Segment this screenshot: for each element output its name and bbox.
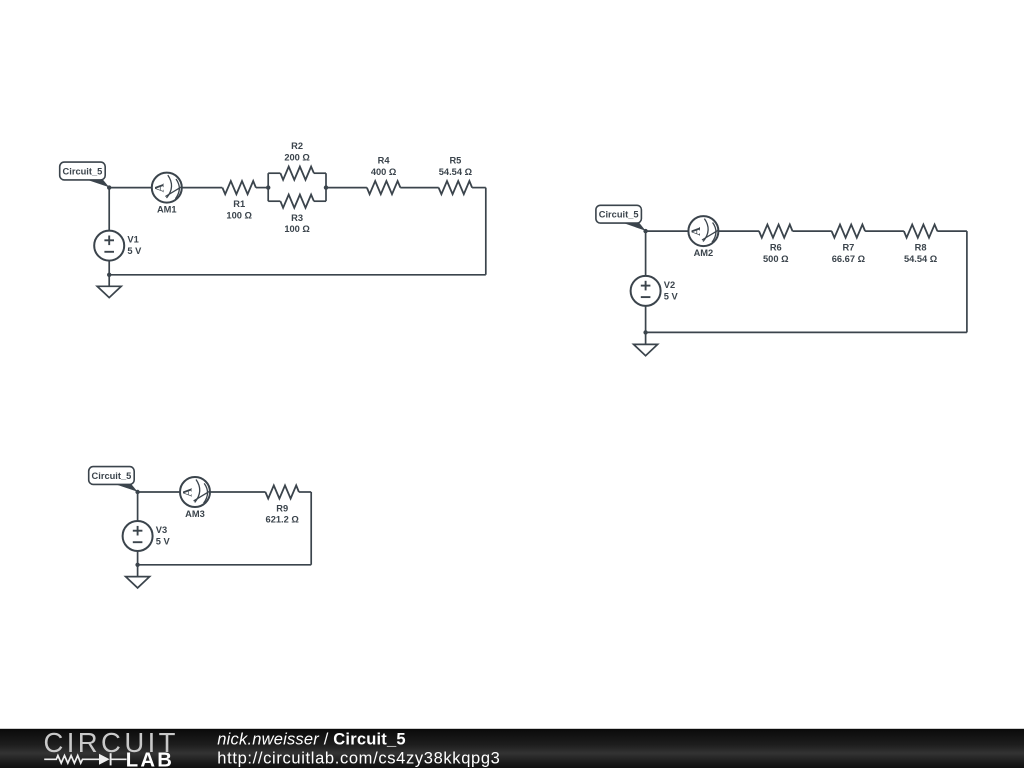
- svg-text:R3: R3: [291, 213, 303, 223]
- resistor R3: [280, 195, 314, 208]
- footer bar: [0, 729, 1024, 768]
- svg-text:A: A: [181, 488, 195, 497]
- svg-text:R9: R9: [276, 504, 288, 514]
- voltage source V2: [631, 276, 661, 306]
- voltage source V3: [123, 521, 153, 551]
- svg-text:Circuit_5: Circuit_5: [63, 167, 103, 177]
- resistor R9: [265, 485, 299, 498]
- ammeter AM1: [152, 173, 182, 203]
- junction node: [643, 229, 647, 233]
- svg-text:R7: R7: [842, 243, 854, 253]
- wire: [109, 187, 152, 189]
- wire: [400, 187, 438, 189]
- svg-text:R4: R4: [378, 156, 391, 166]
- wire: [138, 491, 180, 493]
- wire: [299, 491, 311, 493]
- CircuitLab logo: resistor zigzag: [44, 756, 99, 764]
- wire: [718, 230, 759, 232]
- junction node: [135, 563, 139, 567]
- voltage source V1: [94, 231, 124, 261]
- svg-text:AM3: AM3: [185, 509, 205, 519]
- svg-text:A: A: [689, 227, 703, 236]
- svg-text:AM2: AM2: [694, 248, 714, 258]
- wire: [268, 172, 280, 174]
- svg-text:R8: R8: [915, 243, 927, 253]
- resistor R5: [439, 181, 473, 194]
- wire: [137, 492, 139, 521]
- junction node: [135, 490, 139, 494]
- resistor R4: [367, 181, 401, 194]
- label V1: 5 V: [127, 235, 142, 256]
- svg-text:5 V: 5 V: [156, 536, 171, 546]
- svg-text:V3: V3: [156, 525, 167, 535]
- ground: [97, 275, 121, 298]
- wire: [314, 172, 326, 174]
- wire: [646, 331, 967, 333]
- wire: [865, 230, 904, 232]
- label V3: 5 V: [156, 525, 171, 546]
- svg-text:400 Ω: 400 Ω: [371, 167, 397, 177]
- svg-text:100 Ω: 100 Ω: [284, 224, 310, 234]
- wire: [108, 188, 110, 231]
- wire: [937, 230, 967, 232]
- wire: [645, 231, 647, 276]
- resistor R7: [832, 225, 866, 238]
- wire: [310, 492, 312, 565]
- wire: [256, 187, 268, 189]
- svg-text:5 V: 5 V: [127, 246, 142, 256]
- wire: [645, 306, 647, 333]
- ground: [634, 332, 658, 355]
- resistor R2: [280, 167, 314, 180]
- resistor R6: [759, 225, 793, 238]
- svg-text:R6: R6: [770, 243, 782, 253]
- wire: [314, 200, 326, 202]
- ground: [126, 565, 150, 588]
- resistor R1: [222, 181, 256, 194]
- wire: [793, 230, 832, 232]
- wire: [966, 231, 968, 332]
- svg-text:Circuit_5: Circuit_5: [92, 471, 132, 481]
- svg-text:R2: R2: [291, 141, 303, 151]
- svg-text:AM1: AM1: [157, 205, 177, 215]
- wire: [326, 187, 367, 189]
- wire: [267, 173, 269, 201]
- wire: [109, 274, 486, 276]
- junction node: [107, 273, 111, 277]
- ammeter AM3: [180, 477, 210, 507]
- junction node: [107, 185, 111, 189]
- svg-text:R1: R1: [233, 199, 245, 209]
- resistor R8: [904, 225, 938, 238]
- junction node: [324, 185, 328, 189]
- wire: [210, 491, 266, 493]
- wire: [182, 187, 223, 189]
- node flag Circuit_5: [596, 205, 646, 231]
- label V2: 5 V: [664, 280, 679, 301]
- svg-text:R5: R5: [449, 156, 461, 166]
- junction node: [266, 185, 270, 189]
- node flag Circuit_5: [60, 162, 109, 187]
- svg-text:http://circuitlab.com/cs4zy38k: http://circuitlab.com/cs4zy38kkqpg3: [217, 750, 500, 768]
- wire: [137, 551, 139, 565]
- svg-text:Circuit_5: Circuit_5: [599, 210, 639, 220]
- wire: [646, 230, 689, 232]
- wire: [325, 173, 327, 201]
- ammeter AM2: [688, 216, 718, 246]
- CircuitLab logo: diode symbol: [99, 753, 127, 765]
- svg-text:5 V: 5 V: [664, 291, 679, 301]
- svg-text:LAB: LAB: [126, 749, 174, 768]
- svg-text:200 Ω: 200 Ω: [284, 153, 310, 163]
- junction node: [643, 330, 647, 334]
- wire: [485, 188, 487, 275]
- svg-text:66.67 Ω: 66.67 Ω: [832, 254, 866, 264]
- svg-text:54.54 Ω: 54.54 Ω: [439, 167, 473, 177]
- svg-text:A: A: [152, 183, 166, 192]
- svg-text:54.54 Ω: 54.54 Ω: [904, 254, 938, 264]
- wire: [138, 564, 312, 566]
- svg-text:621.2 Ω: 621.2 Ω: [266, 515, 300, 525]
- wire: [108, 261, 110, 275]
- svg-text:V1: V1: [127, 235, 138, 245]
- svg-text:100 Ω: 100 Ω: [226, 210, 252, 220]
- svg-text:V2: V2: [664, 280, 675, 290]
- svg-text:500 Ω: 500 Ω: [763, 254, 789, 264]
- wire: [472, 187, 486, 189]
- wire: [268, 200, 280, 202]
- node flag Circuit_5: [89, 467, 138, 492]
- svg-text:nick.nweisser / Circuit_5: nick.nweisser / Circuit_5: [217, 730, 405, 748]
